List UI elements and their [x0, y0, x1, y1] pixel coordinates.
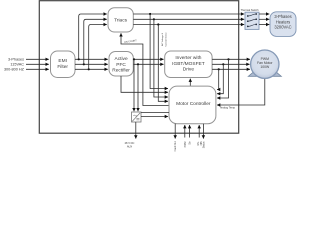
- wire PFC DC minus to inverter: [133, 63, 163, 65]
- wire motor phase C current sense: [217, 69, 219, 89]
- svg-text:115VAC: 115VAC: [10, 63, 24, 67]
- svg-text:Rectifier: Rectifier: [112, 68, 130, 74]
- svg-text:Analog Temp: Analog Temp: [220, 105, 236, 109]
- wire converter DC output: [135, 122, 137, 139]
- wire Triacs output phase A: [133, 13, 244, 15]
- junction dot phase B riser: [83, 63, 85, 65]
- junction dot DC plus tap: [133, 58, 135, 60]
- wire switch to heaters phase C: [259, 24, 269, 26]
- wire controller serial input: [198, 125, 200, 138]
- svg-text:Inverter with: Inverter with: [175, 55, 201, 61]
- svg-text:Dir: Dir: [189, 141, 192, 144]
- wire EMI to PFC phase B: [75, 63, 108, 65]
- svg-text:300-800 HZ: 300-800 HZ: [4, 68, 25, 72]
- wire converter to controller supply: [141, 116, 168, 118]
- block 3-Phases Heaters 3200VAC: [270, 12, 296, 37]
- wire inverter output phase A to motor: [212, 58, 250, 60]
- svg-text:Triacs: Triacs: [114, 18, 127, 24]
- wire switch to heaters phase B: [259, 18, 269, 20]
- wire Triacs output phase B: [133, 18, 244, 20]
- junction dot motor phase A sense: [227, 58, 229, 60]
- wire controller direction input: [189, 125, 191, 138]
- wire riser phase C to Triacs: [89, 25, 107, 70]
- wire PFC DC bus sense to controller: [121, 76, 168, 92]
- svg-text:28 V DC: 28 V DC: [125, 141, 135, 145]
- svg-text:PFC: PFC: [116, 62, 126, 68]
- system boundary frame: [39, 1, 238, 134]
- wire input phase A: [26, 58, 49, 60]
- svg-text:Filter: Filter: [57, 64, 68, 70]
- wire input phase B: [26, 63, 49, 65]
- svg-text:AC Voltage &: AC Voltage &: [161, 32, 164, 46]
- svg-text:3-Phases: 3-Phases: [8, 58, 24, 62]
- block thermal switch: [245, 12, 259, 29]
- wire Triacs output phase C: [133, 24, 244, 26]
- fan motor body PWM Fan Motor 100W: [251, 50, 279, 78]
- wire analog temp from fan motor: [217, 77, 265, 106]
- svg-text:Drive: Drive: [183, 67, 195, 73]
- block Active PFC Rectifier: [109, 52, 133, 77]
- wire inverter output phase C to motor: [212, 68, 250, 70]
- junction dot motor phase C sense: [218, 68, 220, 70]
- junction dot Triacs phase C sense: [157, 23, 159, 25]
- wire DC plus to converter: [133, 59, 135, 111]
- wire motor phase B current sense: [217, 64, 223, 93]
- block Inverter with IGBT/MOSFET Drive: [165, 51, 212, 78]
- wire input phase C: [26, 68, 49, 70]
- block EMI Filter: [51, 51, 76, 78]
- junction dot phase C riser: [88, 68, 90, 70]
- wire motor phase A current sense: [217, 59, 229, 98]
- wire controller PWM input: [184, 125, 186, 138]
- svg-text:ON COUNT: ON COUNT: [124, 39, 138, 44]
- svg-text:PWM: PWM: [184, 141, 187, 147]
- svg-text:Motor Controller: Motor Controller: [176, 101, 211, 107]
- svg-text:Thermal Switch: Thermal Switch: [241, 8, 259, 12]
- wire EMI to PFC phase C: [75, 68, 108, 70]
- svg-text:Fault Out: Fault Out: [174, 141, 177, 151]
- junction dot motor phase B sense: [222, 63, 224, 65]
- wire phase B sense to controller: [154, 19, 168, 97]
- wire controller to inverter: [189, 79, 191, 87]
- wire riser phase A to Triacs: [79, 14, 107, 59]
- svg-text:Current Sense: Current Sense: [164, 32, 167, 47]
- wire switch to heaters phase A: [259, 13, 269, 15]
- svg-text:100W: 100W: [260, 65, 270, 69]
- wire inverter output phase B to motor: [212, 63, 250, 65]
- wire controller fault output: [174, 124, 176, 139]
- wire Triacs gate drive: [121, 33, 169, 105]
- block Motor Controller: [169, 86, 216, 124]
- wire phase C sense to controller: [158, 25, 168, 102]
- wire DC minus to converter: [137, 64, 139, 111]
- svg-text:AUX: AUX: [127, 145, 133, 149]
- wire riser phase B to Triacs: [84, 19, 107, 64]
- wire controller status output: [202, 124, 204, 139]
- wire PFC DC plus to inverter: [133, 58, 163, 60]
- junction dot Triacs phase A sense: [149, 13, 151, 15]
- svg-text:EMI: EMI: [58, 58, 67, 64]
- block DC converter: [132, 112, 142, 122]
- junction dot phase A riser: [78, 58, 80, 60]
- junction dot Triacs phase B sense: [153, 18, 155, 20]
- wire EMI to PFC phase A: [75, 58, 108, 60]
- svg-text:IGBT/MOSFET: IGBT/MOSFET: [172, 61, 205, 67]
- wire phase A sense to controller: [150, 14, 168, 89]
- block Triacs: [108, 8, 133, 32]
- svg-text:3200VAC: 3200VAC: [274, 24, 291, 29]
- wire converter to controller aux: [141, 111, 169, 113]
- svg-text:Status: Status: [202, 141, 205, 149]
- junction dot DC minus tap: [137, 63, 139, 65]
- fan motor pedestal: [248, 71, 281, 76]
- svg-text:Active: Active: [115, 56, 128, 62]
